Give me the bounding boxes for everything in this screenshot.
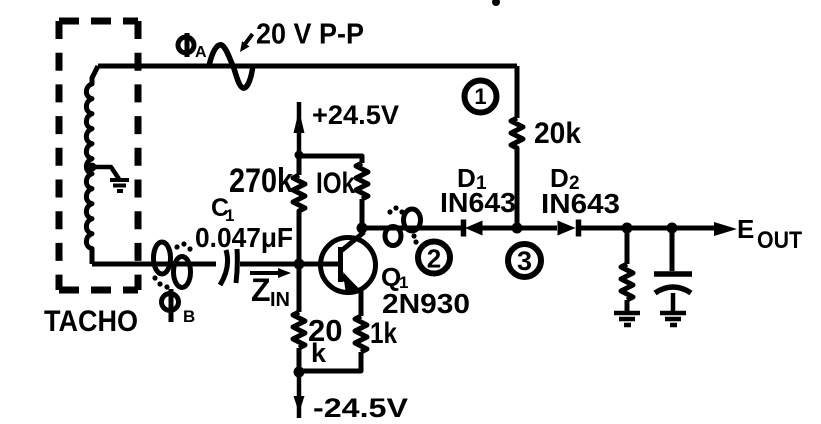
transistor Q1 circle [321,238,376,293]
transistor collector lead [341,228,363,251]
svg-text:270k: 270k [229,162,293,200]
svg-text:-24.5V: -24.5V [313,393,408,423]
label phi_A [178,33,194,57]
wire: output junction down [625,228,630,264]
ground (inside tacho box) [110,180,129,191]
phi_B waveform loops [154,242,191,288]
wire: right vertical down to 20k resistor [515,66,520,118]
wire: emitter down to 1k [359,290,364,316]
wire: 10k to collector junction [360,199,365,228]
svg-text:2: 2 [427,244,441,274]
wire: coil tap to ground [92,167,119,179]
svg-text:1k: 1k [370,317,397,350]
wire: capacitor to ground [671,293,676,311]
svg-text:3: 3 [517,246,532,276]
svg-text:20 V P-P: 20 V P-P [256,19,364,51]
Z_IN arrow [250,271,282,275]
node circle 3 [508,244,541,277]
tacho dashed box [59,21,138,290]
wire: C1 to base, through junction [240,262,339,267]
svg-text:OUT: OUT [757,227,802,254]
resistor (output load to ground) [621,264,633,300]
node circle 1 [465,81,497,113]
svg-text:TACHO: TACHO [44,305,138,338]
node: bottom junction dot [294,367,305,378]
svg-text:E: E [737,214,754,244]
phi_A sine wave on top wire [209,45,253,88]
diode D1 (cathode bar left, pointing left) [461,220,467,237]
resistor 270k [293,175,305,215]
transistor base bar [338,247,343,282]
wire: 20k to bottom junction [297,348,302,373]
diode D2 (pointing right, bar right) [558,221,576,236]
svg-text:2N930: 2N930 [382,288,470,319]
label phi_B [162,289,179,322]
svg-text:Z: Z [251,272,271,308]
svg-text:IN643: IN643 [440,187,516,218]
node: node 3 junction dot [512,223,523,234]
arrow from 20V P-P to sine [245,34,253,44]
ground (output capacitor) [660,313,686,325]
svg-text:k: k [311,338,327,368]
resistor 1k [355,316,367,352]
svg-text:A: A [195,44,207,61]
capacitor (output filter) plates [654,271,692,277]
svg-text:0.047μF: 0.047μF [195,222,293,253]
resistor 10k [356,163,368,199]
node circle 2 [418,242,450,274]
wire: 1k bottom to rail [299,352,361,371]
wire: D2 to output with E_OUT arrow [578,226,716,231]
wire: D1 to node3 [482,226,557,231]
wire: output junction down to capacitor [670,228,675,271]
ground (output resistor) [614,313,640,325]
wire: +24.5 rail to 270k [297,152,302,175]
wire: 20k to node 3 junction [515,152,520,228]
node: junction base/rail [294,259,305,270]
resistor 20k (lower) [293,312,305,348]
svg-text:IOk: IOk [316,167,355,200]
wire: branch to 10k [299,156,362,163]
capacitor C1 plates [220,250,228,285]
resistor 20k (top right) [511,118,523,152]
-24.5V supply arrow [297,373,302,418]
wire: resistor to ground [625,300,630,311]
node: output capacitor junction dot [667,223,678,234]
wire: rail below base junction [297,264,302,312]
artifact blob top [492,0,500,6]
node: collector junction dot [357,223,368,234]
node: output resistor junction dot [622,223,633,234]
wire: 270k to base junction [297,215,302,264]
svg-text:IN643: IN643 [541,188,620,219]
node: tap junction dot [88,163,97,172]
wire: collector to D1 [362,226,461,231]
inductor L (tacho coil) [86,66,98,264]
wire: bottom wire from coil to C1 [92,262,216,267]
node: junction rail/10k branch [295,151,304,160]
svg-text:B: B [183,307,195,326]
svg-text:IN: IN [270,289,290,311]
svg-text:1: 1 [474,84,486,109]
wire: top wire from coil to top-right corner [98,64,517,69]
svg-text:20k: 20k [534,117,581,150]
svg-text:+24.5V: +24.5V [312,100,399,130]
+24.5V supply arrow [297,102,302,152]
phi waveform at collector [385,209,421,246]
transistor emitter lead with arrow [341,276,356,289]
